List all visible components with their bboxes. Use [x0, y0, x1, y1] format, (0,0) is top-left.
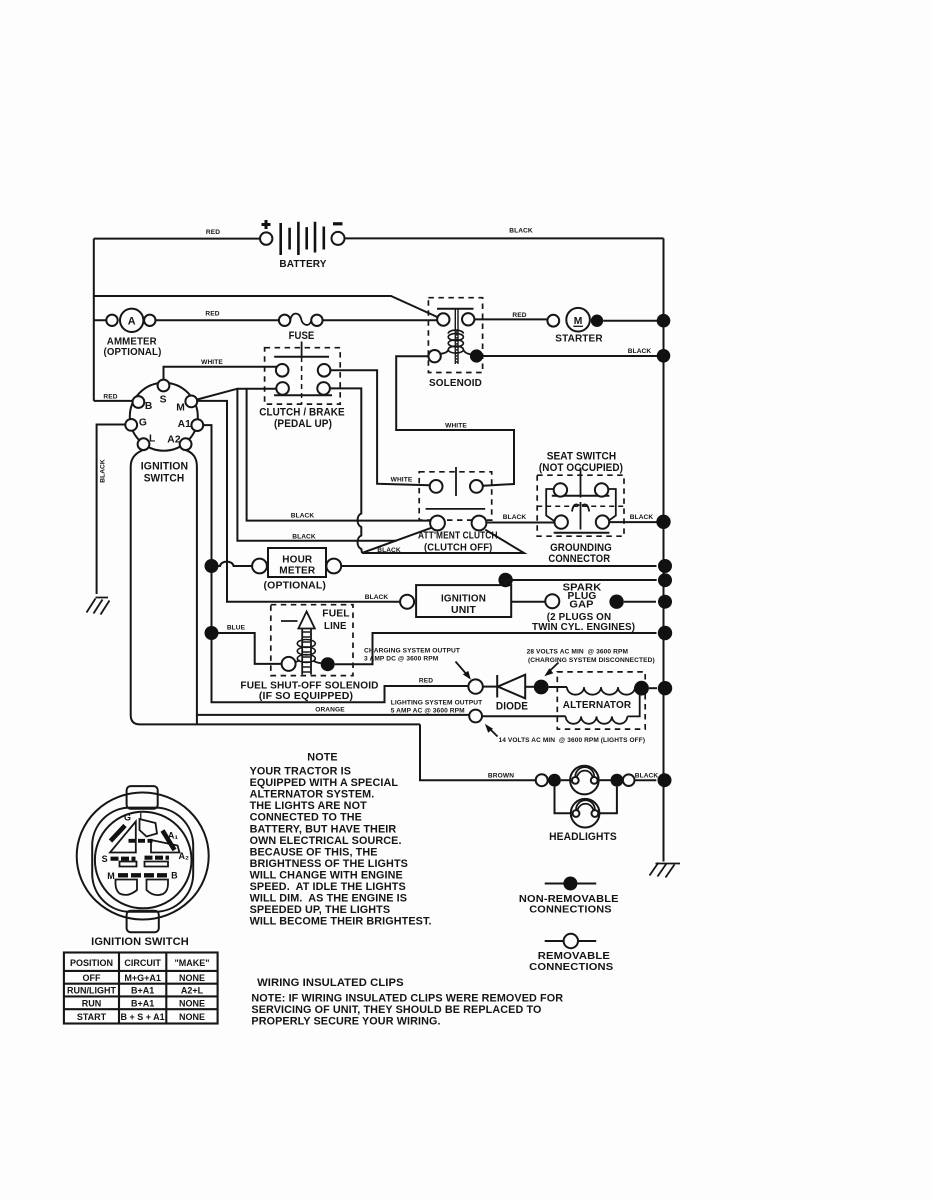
wire solenoid ground black to rail — [483, 355, 657, 357]
headlight bulb 1 — [570, 766, 599, 795]
wire diode to alternator — [525, 686, 534, 688]
svg-text:S: S — [102, 854, 108, 864]
svg-text:BLACK: BLACK — [292, 533, 316, 540]
wire headlight to rail black — [635, 779, 657, 781]
svg-text:PROPERLY SECURE YOUR WIRING.: PROPERLY SECURE YOUR WIRING. — [251, 1016, 440, 1028]
svg-text:A2+L: A2+L — [181, 986, 204, 996]
svg-text:FUSE: FUSE — [289, 330, 315, 342]
svg-text:SWITCH: SWITCH — [144, 473, 185, 485]
svg-text:HOUR: HOUR — [282, 555, 312, 566]
diode cathode bar — [496, 675, 498, 698]
svg-text:YOUR TRACTOR IS: YOUR TRACTOR IS — [250, 766, 351, 778]
svg-text:SERVICING OF UNIT, THEY SHOULD: SERVICING OF UNIT, THEY SHOULD BE REPLAC… — [251, 1004, 541, 1016]
svg-text:BECAUSE OF THIS, THE: BECAUSE OF THIS, THE — [250, 846, 378, 858]
ground symbol left — [87, 598, 110, 615]
key bar A1 diagonal — [163, 831, 175, 851]
svg-text:SEAT SWITCH: SEAT SWITCH — [547, 451, 617, 463]
wire clutch brake bottom right down with hops — [330, 388, 362, 553]
svg-text:3 AMP DC @ 3600 RPM: 3 AMP DC @ 3600 RPM — [364, 656, 439, 663]
key bar A2 row — [145, 856, 170, 860]
wire ammeter row red — [94, 319, 279, 321]
fuel solenoid elbow right — [314, 661, 321, 664]
node headlight right junction — [611, 774, 624, 787]
key bar center horizontal — [129, 839, 153, 843]
svg-text:S: S — [160, 394, 167, 405]
clutch brake switch dashed box — [265, 348, 341, 404]
wire ignition switch B pin red — [94, 400, 133, 402]
wire diode node to alternator coil — [549, 686, 567, 688]
attachment clutch terminal bottom left — [430, 516, 445, 531]
solenoid coil — [448, 330, 463, 353]
attachment clutch terminal top right — [470, 480, 483, 493]
svg-text:RUN/LIGHT: RUN/LIGHT — [67, 986, 116, 996]
ammeter right terminal — [144, 315, 155, 326]
svg-text:WILL DIM. AS THE ENGINE IS: WILL DIM. AS THE ENGINE IS — [250, 893, 407, 905]
svg-text:B+A1: B+A1 — [131, 998, 154, 1008]
svg-text:SPEED. AT IDLE THE LIGHTS: SPEED. AT IDLE THE LIGHTS — [250, 881, 406, 893]
key slot bar right small — [145, 862, 169, 867]
key top tab — [127, 786, 158, 809]
clutch brake terminal top left — [276, 364, 289, 377]
svg-text:(NOT OCCUPIED): (NOT OCCUPIED) — [539, 462, 623, 474]
alternator top coil — [567, 687, 635, 695]
svg-text:M: M — [176, 403, 185, 414]
seat switch left staple — [546, 489, 555, 522]
svg-text:START: START — [77, 1012, 107, 1022]
ignition switch SW1 connector circle — [130, 383, 198, 451]
solenoid bottom right node (non-removable) — [470, 349, 483, 362]
solenoid K1 — [428, 298, 483, 389]
svg-text:G: G — [124, 813, 131, 823]
wire battery negative black to right rail — [345, 237, 664, 239]
fuse F1 — [279, 314, 323, 342]
svg-text:BLACK: BLACK — [628, 348, 652, 355]
key bar M-B row — [118, 873, 168, 877]
node rail starter junction — [657, 314, 671, 328]
key slot bottom right — [147, 880, 169, 896]
spark plug terminal — [545, 594, 559, 608]
svg-text:IGNITION SWITCH: IGNITION SWITCH — [91, 936, 189, 948]
solenoid coil elbow left — [441, 350, 449, 354]
ignition switch key diagram — [77, 786, 209, 948]
wire fuse to solenoid — [323, 319, 438, 321]
key slot bottom left — [116, 880, 138, 895]
wire node to headlight 1 — [561, 779, 570, 781]
fuel solenoid elbow left — [295, 660, 299, 662]
svg-text:BLACK: BLACK — [365, 594, 389, 601]
arrow 14 volts pointer — [488, 727, 498, 737]
key bar G diagonal — [111, 826, 126, 842]
svg-text:METER: METER — [279, 566, 315, 577]
arrow charging output pointer — [456, 662, 469, 677]
position table — [64, 953, 218, 1024]
note body — [250, 766, 432, 928]
node headlight left junction — [548, 774, 561, 787]
svg-text:STARTER: STARTER — [555, 334, 603, 345]
lighting output terminal — [469, 710, 482, 723]
wiring insulated clips note — [251, 993, 563, 1028]
ignition switch pin B — [133, 396, 145, 408]
node diode output — [534, 680, 549, 695]
svg-text:M+G+A1: M+G+A1 — [124, 973, 161, 983]
fuel line pointer bar — [281, 620, 298, 622]
ground symbol right rail — [650, 863, 681, 878]
svg-text:(PEDAL UP): (PEDAL UP) — [274, 418, 332, 430]
node rail solenoid junction — [657, 349, 671, 363]
hour meter left terminal — [252, 559, 267, 574]
svg-text:WILL BECOME THEIR BRIGHTEST.: WILL BECOME THEIR BRIGHTEST. — [250, 916, 432, 928]
svg-text:L: L — [149, 434, 155, 445]
svg-text:A: A — [128, 316, 136, 328]
wire grounding connector to rail black — [609, 521, 656, 523]
svg-text:NON-REMOVABLE: NON-REMOVABLE — [519, 894, 619, 905]
battery plus sign — [262, 220, 271, 229]
clutch brake center dashed line — [301, 357, 303, 404]
ignition switch pin A1 — [191, 419, 203, 431]
hour meter box — [268, 548, 326, 577]
svg-text:WILL CHANGE WITH ENGINE: WILL CHANGE WITH ENGINE — [250, 870, 403, 882]
clutch brake top bar — [274, 356, 329, 358]
svg-text:IGNITION: IGNITION — [141, 461, 188, 473]
node rail fuel junction — [658, 626, 672, 640]
svg-text:A1: A1 — [178, 419, 192, 430]
svg-text:(OPTIONAL): (OPTIONAL) — [104, 347, 162, 358]
grounding connector terminal right — [596, 515, 609, 528]
fuel solenoid coil — [297, 640, 315, 663]
key slot top center — [140, 819, 158, 837]
svg-text:IGNITION: IGNITION — [441, 594, 486, 605]
svg-text:G: G — [139, 418, 147, 429]
svg-text:TWIN CYL. ENGINES): TWIN CYL. ENGINES) — [532, 622, 635, 633]
svg-text:CHARGING SYSTEM OUTPUT: CHARGING SYSTEM OUTPUT — [364, 647, 460, 654]
node hour meter junction on V1 — [205, 559, 219, 573]
attachment clutch terminal top left — [430, 480, 443, 493]
key rounded square ring — [92, 808, 193, 912]
charging output terminal — [468, 679, 482, 693]
svg-text:UNIT: UNIT — [451, 605, 477, 616]
node right rail — [663, 238, 665, 861]
clutch brake bottom bar — [274, 394, 332, 396]
node rail ignition unit junction — [658, 573, 672, 587]
battery B1 — [260, 220, 345, 270]
wire lighting terminal to alternator — [482, 715, 566, 717]
legend removable connection — [545, 940, 597, 942]
diode D1 — [496, 675, 528, 713]
svg-text:CONNECTOR: CONNECTOR — [548, 553, 610, 565]
attachment clutch center tick — [455, 467, 457, 496]
ignition unit box — [416, 585, 511, 617]
svg-text:FUEL SHUT-OFF SOLENOID: FUEL SHUT-OFF SOLENOID — [240, 680, 378, 691]
svg-text:B+A1: B+A1 — [131, 986, 154, 996]
svg-text:WIRING INSULATED CLIPS: WIRING INSULATED CLIPS — [257, 977, 404, 989]
key inner circle — [95, 812, 192, 909]
wire clutch brake top right white down to attachment clutch — [330, 370, 430, 485]
svg-text:M: M — [574, 316, 583, 327]
starter output node — [591, 315, 603, 327]
wire ignition unit top to rail — [506, 580, 657, 585]
headlight bulb 2 — [571, 799, 600, 828]
wire spark plug to rail — [624, 601, 656, 603]
svg-text:CIRCUIT: CIRCUIT — [124, 958, 161, 968]
wire battery loop bottom to solenoid diagonal — [94, 296, 438, 317]
ignition switch pin S — [158, 380, 170, 392]
ammeter body — [120, 309, 143, 332]
svg-text:NONE: NONE — [179, 973, 205, 983]
svg-text:LINE: LINE — [324, 621, 347, 632]
svg-text:A2: A2 — [167, 434, 181, 445]
seat switch terminal top right — [595, 483, 608, 496]
svg-text:CLUTCH / BRAKE: CLUTCH / BRAKE — [259, 407, 344, 419]
svg-text:I: I — [140, 812, 143, 822]
starter body — [566, 308, 590, 332]
node ignition unit top junction — [498, 573, 512, 587]
svg-text:AMMETER: AMMETER — [107, 337, 157, 348]
grounding connector bottom bar — [554, 532, 610, 534]
svg-text:BLACK: BLACK — [100, 459, 107, 483]
solenoid top right terminal — [462, 313, 474, 325]
svg-text:WHITE: WHITE — [391, 477, 413, 484]
solenoid top left terminal — [437, 313, 449, 325]
attachment clutch skirt — [362, 528, 524, 553]
arrow 28 volts pointer — [548, 663, 559, 674]
wire clutch brake lower branch (V4) — [247, 389, 431, 521]
wire battery positive red top — [94, 238, 260, 240]
clutch brake terminal bottom left — [276, 382, 289, 395]
seat switch dashed box — [537, 475, 624, 536]
node spark plug gap — [609, 595, 623, 609]
node blue junction on V1 — [205, 626, 219, 640]
seat switch center stem — [580, 468, 582, 498]
svg-text:M: M — [107, 871, 115, 881]
ignition switch pin L — [138, 438, 150, 450]
fuel solenoid left terminal — [282, 657, 296, 671]
svg-text:ATT'MENT CLUTCH: ATT'MENT CLUTCH — [418, 531, 498, 542]
starter left terminal — [547, 315, 559, 327]
svg-text:EQUIPPED WITH A SPECIAL: EQUIPPED WITH A SPECIAL — [250, 777, 399, 789]
diode triangle — [498, 675, 525, 699]
svg-text:RED: RED — [103, 393, 117, 400]
wire ignition switch S pin white — [164, 367, 279, 380]
svg-text:(CHARGING SYSTEM DISCONNECTED): (CHARGING SYSTEM DISCONNECTED) — [528, 657, 655, 664]
svg-text:OFF: OFF — [83, 973, 101, 983]
svg-text:CONNECTIONS: CONNECTIONS — [529, 905, 612, 916]
svg-text:RED: RED — [419, 678, 433, 685]
svg-text:BROWN: BROWN — [488, 772, 514, 779]
wire M diagonal branch down to attachment clutch bar — [237, 389, 396, 541]
svg-text:"MAKE": "MAKE" — [174, 958, 209, 968]
svg-text:CONNECTIONS: CONNECTIONS — [529, 962, 613, 973]
wire hour meter to rail — [341, 565, 656, 567]
grounding connector fork — [572, 502, 589, 513]
svg-text:NONE: NONE — [179, 1012, 205, 1022]
headlight feed terminal — [536, 774, 548, 786]
hour meter right terminal — [326, 559, 341, 574]
svg-text:(IF SO EQUIPPED): (IF SO EQUIPPED) — [259, 691, 353, 702]
wire headlight 2 loop — [555, 787, 617, 814]
fuel line arrow — [298, 612, 314, 675]
seat switch terminal top left — [554, 483, 567, 496]
clutch brake terminal bottom right — [317, 382, 330, 395]
svg-text:ALTERNATOR: ALTERNATOR — [563, 700, 632, 711]
node rail grounding junction — [656, 515, 670, 529]
clutch brake center tick — [301, 342, 303, 358]
wire headlight 1 to right node — [599, 779, 611, 781]
alternator bottom coil — [566, 716, 628, 723]
key bar S row — [111, 857, 136, 861]
svg-text:POSITION: POSITION — [70, 958, 113, 968]
battery minus sign — [333, 222, 343, 225]
node rail spark junction — [658, 595, 672, 609]
key outer ring — [77, 793, 209, 920]
solenoid contact bar — [437, 308, 474, 310]
wire brown headlight feed — [420, 724, 536, 780]
wire hour meter left with hop — [219, 562, 253, 566]
svg-text:(CLUTCH OFF): (CLUTCH OFF) — [424, 543, 493, 554]
svg-text:5 AMP AC @ 3600 RPM: 5 AMP AC @ 3600 RPM — [391, 708, 465, 715]
wire ignition unit right to spark plug — [511, 601, 545, 603]
svg-text:BLUE: BLUE — [227, 624, 246, 631]
wire attachment clutch to grounding connector black — [486, 522, 554, 524]
svg-text:BLACK: BLACK — [291, 512, 315, 519]
key bottom tab — [127, 911, 159, 933]
grounding connector terminal left — [555, 515, 568, 528]
fuse right terminal — [311, 315, 322, 326]
svg-text:BRIGHTNESS OF THE LIGHTS: BRIGHTNESS OF THE LIGHTS — [250, 858, 408, 870]
svg-text:OWN ELECTRICAL SOURCE.: OWN ELECTRICAL SOURCE. — [250, 835, 402, 847]
wire blue to fuel solenoid — [219, 633, 282, 664]
fuse left terminal — [279, 315, 290, 326]
wire solenoid bottom left white loop — [396, 356, 514, 486]
svg-text:BATTERY: BATTERY — [279, 259, 326, 270]
battery minus terminal — [332, 232, 345, 245]
svg-text:NOTE: NOTE — [307, 752, 337, 764]
svg-text:B + S + A1: B + S + A1 — [121, 1012, 165, 1022]
svg-text:BLACK: BLACK — [635, 772, 659, 779]
svg-text:CONNECTED TO THE: CONNECTED TO THE — [250, 812, 362, 824]
wire ignition switch M pin diagonal to clutch brake — [197, 389, 276, 400]
svg-text:BLACK: BLACK — [377, 547, 401, 554]
ignition switch pin G — [125, 419, 137, 431]
svg-text:14 VOLTS AC MIN @ 3600 RPM (L: 14 VOLTS AC MIN @ 3600 RPM (LIGHTS OFF) — [499, 737, 646, 744]
grounding connector stem lower — [580, 513, 582, 530]
ignition unit left terminal — [400, 595, 414, 609]
fuel shut-off solenoid dashed box — [271, 605, 353, 676]
attachment clutch inner bar — [426, 508, 486, 510]
wire M pin branch down (V3) to black wire — [197, 401, 400, 602]
battery cell plates — [281, 222, 324, 255]
seat switch contact bar — [552, 495, 610, 497]
svg-text:(OPTIONAL): (OPTIONAL) — [264, 581, 327, 592]
svg-text:THE LIGHTS ARE NOT: THE LIGHTS ARE NOT — [250, 800, 367, 812]
svg-text:HEADLIGHTS: HEADLIGHTS — [549, 831, 617, 843]
wire solenoid to starter red — [474, 318, 547, 320]
key slot bar left small — [120, 862, 137, 867]
wire alternator bottom coil to node — [627, 695, 639, 717]
alternator dashed box — [557, 672, 645, 729]
solenoid plunger — [455, 309, 458, 364]
seat switch divider dashed — [537, 505, 624, 507]
svg-text:RED: RED — [205, 311, 219, 318]
svg-text:REMOVABLE: REMOVABLE — [538, 951, 610, 962]
svg-text:BLACK: BLACK — [503, 514, 527, 521]
wire ignition switch G pin to ground black — [97, 425, 126, 595]
svg-text:WHITE: WHITE — [445, 422, 467, 429]
solenoid dashed box — [428, 298, 482, 373]
svg-text:GAP: GAP — [569, 600, 593, 611]
svg-text:NONE: NONE — [179, 998, 205, 1008]
svg-text:NOTE: IF WIRING INSULATED CLIP: NOTE: IF WIRING INSULATED CLIPS WERE REM… — [251, 993, 563, 1005]
ignition switch body outline — [131, 449, 420, 724]
ammeter A1 (optional) — [104, 309, 162, 358]
svg-text:A₁: A₁ — [168, 830, 178, 840]
solenoid coil elbow right — [463, 349, 470, 354]
svg-text:DIODE: DIODE — [496, 701, 528, 713]
svg-text:LIGHTING SYSTEM OUTPUT: LIGHTING SYSTEM OUTPUT — [391, 700, 483, 707]
ammeter left terminal — [106, 315, 117, 326]
legend non-removable connection — [545, 883, 597, 885]
key slot triangle left — [110, 822, 136, 853]
solenoid bottom left terminal — [428, 350, 440, 362]
svg-text:A₂: A₂ — [179, 851, 190, 861]
wire ignition switch A1 pin down (V1) — [203, 425, 468, 702]
node rail hour meter junction — [658, 559, 672, 573]
node rail headlight junction — [658, 773, 672, 787]
clutch brake terminal top right — [318, 364, 331, 377]
svg-text:RED: RED — [206, 229, 220, 236]
ignition switch pin M — [185, 396, 197, 408]
wire charging terminal to diode — [483, 686, 497, 688]
node alternator output — [634, 681, 649, 696]
svg-text:28 VOLTS AC MIN @ 3600 RPM: 28 VOLTS AC MIN @ 3600 RPM — [527, 649, 629, 656]
svg-text:BATTERY, BUT HAVE THEIR: BATTERY, BUT HAVE THEIR — [250, 823, 397, 835]
wire alternator node to rail — [649, 687, 657, 689]
svg-text:B: B — [171, 871, 178, 881]
seat switch right staple — [608, 489, 616, 522]
wire ignition switch A2 pin down orange — [197, 714, 470, 716]
svg-text:ALTERNATOR SYSTEM.: ALTERNATOR SYSTEM. — [250, 789, 375, 801]
wire left vertical battery loop down to B pin — [93, 239, 95, 401]
key slot right — [151, 840, 180, 853]
wire starter to rail — [603, 320, 657, 322]
svg-text:BLACK: BLACK — [630, 514, 654, 521]
attachment clutch terminal bottom right — [472, 516, 487, 531]
svg-text:B: B — [145, 401, 153, 412]
node rail alternator junction — [658, 681, 672, 695]
starter motor M — [547, 308, 603, 345]
svg-text:FUEL: FUEL — [322, 608, 349, 619]
svg-text:SOLENOID: SOLENOID — [429, 378, 482, 389]
fuse element — [290, 314, 311, 325]
svg-text:SPEEDED UP, THE LIGHTS: SPEEDED UP, THE LIGHTS — [250, 904, 391, 916]
wire fuel solenoid output to rail — [335, 633, 657, 664]
svg-text:WHITE: WHITE — [201, 359, 223, 366]
svg-text:RUN: RUN — [82, 998, 102, 1008]
headlight right terminal — [623, 774, 635, 786]
attachment clutch dashed box — [419, 472, 492, 520]
battery plus terminal — [260, 232, 272, 244]
svg-text:RED: RED — [512, 312, 526, 319]
svg-text:ORANGE: ORANGE — [315, 707, 345, 714]
ignition switch pin A2 — [180, 438, 192, 450]
node fuel solenoid output — [321, 657, 335, 671]
svg-text:BLACK: BLACK — [509, 228, 533, 235]
